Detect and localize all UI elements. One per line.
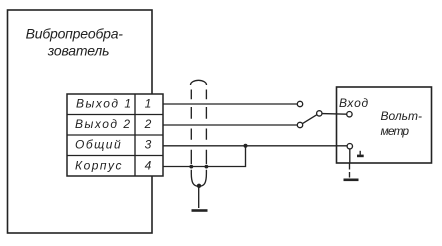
svg-text:1: 1 [145, 97, 152, 111]
svg-text:зователь: зователь [47, 42, 110, 58]
svg-text:Вход: Вход [339, 96, 369, 110]
svg-text:4: 4 [145, 159, 152, 173]
svg-text:Выход 2: Выход 2 [75, 117, 132, 131]
svg-text:2: 2 [144, 117, 152, 131]
svg-text:Вольт-: Вольт- [381, 109, 422, 123]
svg-text:Вибропреобра-: Вибропреобра- [26, 26, 124, 42]
svg-text:метр: метр [381, 124, 410, 138]
svg-text:3: 3 [145, 138, 152, 152]
svg-text:Общий: Общий [75, 138, 122, 152]
svg-text:Выход 1: Выход 1 [76, 97, 133, 111]
svg-text:Корпус: Корпус [75, 159, 123, 173]
